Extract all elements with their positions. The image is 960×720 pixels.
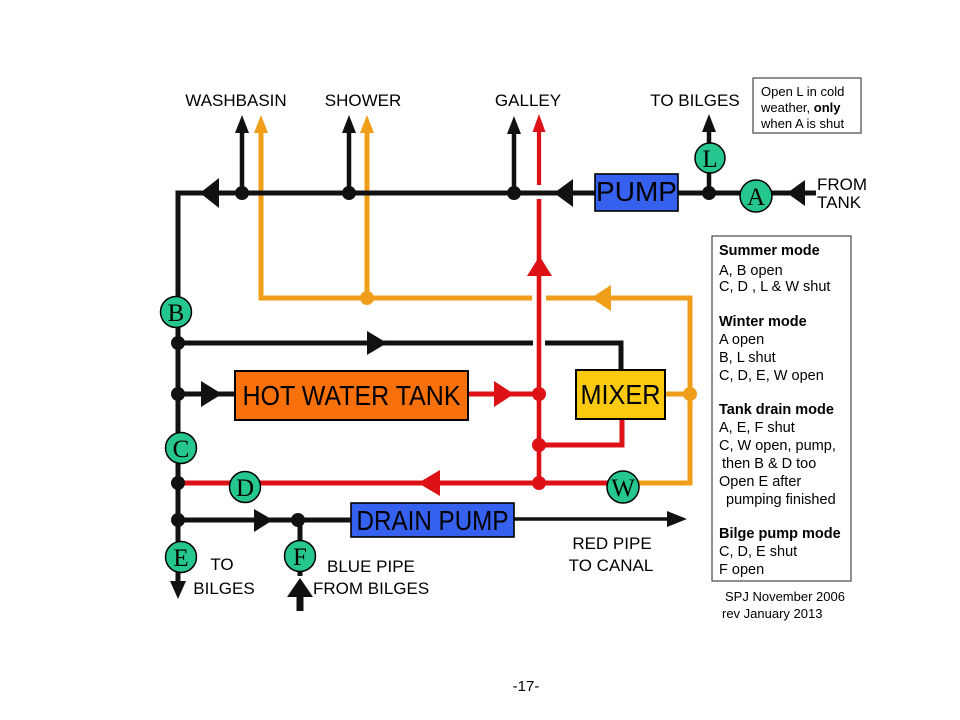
svg-text:TO BILGES: TO BILGES [650,91,739,110]
drain pump box [351,503,514,537]
svg-text:D: D [236,475,254,502]
svg-text:FROM BILGES: FROM BILGES [313,579,429,598]
svg-text:TO CANAL: TO CANAL [569,556,654,575]
svg-text:GALLEY: GALLEY [495,91,561,110]
pipe: black line from B to mixer top with right arrow [178,331,621,371]
valve F [285,541,316,572]
pipe: galley black stub with up arrow [507,116,521,193]
svg-text:Winter mode: Winter mode [719,314,807,330]
svg-text:A, E, F shut: A, E, F shut [719,420,795,436]
junction dot drain line left [171,513,185,527]
pipe: red mixer bottom connection [539,419,622,445]
svg-text:-17-: -17- [513,678,540,695]
svg-text:SPJ November 2006: SPJ November 2006 [725,589,845,604]
svg-text:B: B [168,300,185,327]
label RED PIPE TO CANAL [569,534,654,575]
junction dot galley [507,186,521,200]
svg-text:FROM: FROM [817,175,867,194]
valve D [230,472,261,503]
pipe: mixer outlet orange [665,392,690,397]
arrow on main line before pump (left) [554,179,573,207]
junction dot shower [342,186,356,200]
info box: operating modes [712,236,851,581]
svg-text:Summer mode: Summer mode [719,243,820,259]
junction dot washbasin [235,186,249,200]
svg-text:C: C [173,436,190,463]
label TO BILGES (bottom left) [193,555,254,598]
pipe: washbasin orange riser lower part [261,131,532,298]
pipe: drain pump line left with right arrow [178,509,351,532]
junction dot red drain [532,476,546,490]
note box: Open L in cold weather [753,78,861,133]
pipe: red hot water tank outlet with right arrow [468,381,539,407]
svg-text:MIXER: MIXER [581,379,661,410]
pipe: cold feed into hot water tank with right arrow [178,381,235,407]
svg-text:DRAIN PUMP: DRAIN PUMP [357,505,509,536]
arrow from tank (left) [787,180,805,206]
svg-text:TO: TO [210,555,233,574]
pipe: main cold water horizontal line [178,191,816,196]
junction dot F branch [291,513,305,527]
pipe: orange hot supply from W up and left with left arrow [546,285,690,483]
svg-text:Tank drain mode: Tank drain mode [719,402,834,418]
svg-text:SHOWER: SHOWER [325,91,402,110]
pipe: shower black stub with up arrow [342,115,356,193]
pipe: drain pump outlet to canal with arrow [514,511,687,527]
junction dot below L [702,186,716,200]
junction dot D line [171,476,185,490]
svg-text:weather, only: weather, only [760,100,841,115]
valve L [695,143,725,173]
svg-text:pumping finished: pumping finished [726,492,836,508]
label SPJ credit [722,589,845,621]
pipe: left vertical main (to B,C,E) [176,191,181,585]
svg-text:W: W [611,475,635,502]
arrow: shower orange up arrow [360,115,374,133]
svg-text:C, D, E, W open: C, D, E, W open [719,368,824,384]
pipe: galley red riser with up arrows [527,114,552,483]
junction dot orange shower [360,291,374,305]
svg-text:HOT WATER TANK: HOT WATER TANK [243,380,461,411]
junction dot orange mixer outlet [683,387,697,401]
svg-text:BILGES: BILGES [193,579,254,598]
svg-text:Bilge pump mode: Bilge pump mode [719,526,841,542]
svg-text:C, D , L & W shut: C, D , L & W shut [719,279,830,295]
svg-text:BLUE PIPE: BLUE PIPE [327,557,415,576]
svg-text:A, B open: A, B open [719,263,783,279]
svg-text:WASHBASIN: WASHBASIN [185,91,286,110]
svg-text:Open L in cold: Open L in cold [761,84,844,99]
svg-text:PUMP: PUMP [596,176,677,207]
arrow: E to bilges down arrow [170,581,186,599]
valve B [161,297,192,328]
junction dot tank feed [171,387,185,401]
valve C [166,433,197,464]
label BLUE PIPE FROM BILGES [313,557,429,598]
junction dot red tank outlet [532,387,546,401]
svg-text:C, W open, pump,: C, W open, pump, [719,438,836,454]
arrow on main line near washbasin (left) [200,178,219,208]
pump box PUMP [595,174,678,211]
svg-text:F open: F open [719,562,764,578]
arrow: washbasin orange up arrow [254,115,268,133]
valve A [740,180,772,212]
hot water tank box [235,371,468,420]
mixer box [576,370,665,419]
svg-text:when A is shut: when A is shut [760,116,844,131]
svg-text:C, D, E shut: C, D, E shut [719,544,797,560]
svg-text:A open: A open [719,332,764,348]
svg-text:then B & D too: then B & D too [722,456,816,472]
junction dot B line [171,336,185,350]
svg-text:rev January 2013: rev January 2013 [722,606,822,621]
pipe: to bilges stub (L branch) with up arrow [702,114,716,193]
svg-text:F: F [293,544,307,571]
svg-text:B, L shut: B, L shut [719,350,776,366]
svg-text:Open E after: Open E after [719,474,801,490]
valve E [166,542,197,573]
pipe: red drain line through D with left arrow [178,470,624,496]
pipe: F branch from bilges with up arrow [287,520,313,611]
svg-text:TANK: TANK [817,193,862,212]
pipe: washbasin black stub with up arrow [235,115,249,193]
svg-text:E: E [173,545,188,572]
valve W [607,471,639,503]
svg-text:RED PIPE: RED PIPE [572,534,651,553]
svg-text:A: A [747,184,765,211]
pipe: shower orange riser lower part [365,131,370,298]
label FROM TANK [817,175,867,212]
junction dot red mixer return [532,438,546,452]
svg-text:L: L [702,146,717,173]
